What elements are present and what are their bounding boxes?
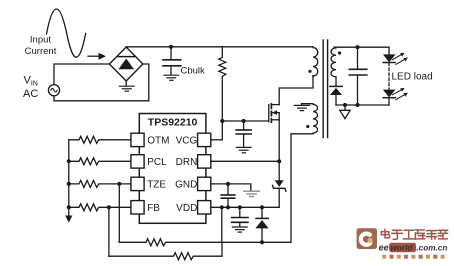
node VDD b — [226, 205, 230, 209]
svg-text:Input: Input — [30, 35, 51, 46]
wire GND pin network — [211, 184, 251, 191]
diode D2 output rectifier — [330, 86, 342, 105]
ground at aux winding top — [294, 104, 309, 111]
node VDD a — [220, 205, 224, 209]
transformer T1 secondary winding — [331, 48, 336, 86]
svg-text:TZE: TZE — [147, 179, 166, 190]
bridge rectifier D1 — [109, 47, 142, 81]
svg-text:TPS92210: TPS92210 — [148, 117, 198, 129]
wire FB tap down — [108, 207, 110, 256]
node output cap bottom — [355, 103, 359, 107]
wire drain to primary — [279, 76, 313, 105]
node VDD d — [260, 205, 264, 209]
svg-text:world: world — [390, 242, 413, 252]
resistor R5 (startup, vertical) — [219, 47, 226, 140]
svg-text:Current: Current — [25, 46, 57, 57]
transformer T1 aux winding — [291, 104, 318, 243]
node bus row4 — [67, 205, 71, 209]
wire VDD down to feedback line — [221, 207, 223, 242]
capacitor Cbulk — [163, 47, 181, 75]
input current label — [25, 35, 57, 58]
node D3 bottom — [260, 240, 264, 244]
pin labels left — [147, 135, 169, 213]
node DRN junction — [277, 159, 281, 163]
secondary top rail — [334, 46, 389, 48]
LED1 arrows — [393, 53, 408, 65]
IC U1 TPS92210 body — [139, 114, 206, 224]
svg-text:LED load: LED load — [392, 72, 433, 83]
node FB tap — [107, 205, 111, 209]
node GND cap junction — [226, 182, 230, 186]
pin VDD — [198, 201, 211, 214]
node VDD c — [238, 205, 242, 209]
logo eeworld text — [389, 243, 416, 252]
capacitor C4 (GND to VDD) — [221, 184, 235, 207]
svg-text:Cbulk: Cbulk — [181, 66, 206, 77]
wire gate line — [222, 120, 268, 122]
svg-text:FB: FB — [147, 203, 160, 214]
node VCG junction — [220, 119, 224, 123]
pin labels right — [175, 135, 197, 213]
node secondary polarity dot — [338, 51, 341, 54]
ground output (open triangle) — [340, 105, 350, 119]
top rail wire — [126, 46, 313, 48]
logo square — [357, 228, 377, 249]
wire bridge bottom to ground — [125, 81, 127, 86]
pin OTM — [131, 133, 144, 146]
wire VDD rail — [211, 206, 279, 208]
secondary bottom rail — [336, 104, 389, 106]
svg-text:PCL: PCL — [147, 157, 167, 168]
resistor R7 (FB feedback) — [109, 242, 222, 259]
VIN AC label — [23, 75, 38, 101]
wire VCG pin to node — [211, 139, 223, 141]
svg-text:VCG: VCG — [176, 135, 198, 146]
pin GND — [198, 177, 211, 190]
wire source down — [278, 113, 280, 180]
pin DRN — [198, 155, 211, 168]
ground GND pin (gray) — [244, 191, 260, 196]
diode D3 (VDD supply) — [255, 207, 268, 242]
node primary polarity dot — [308, 70, 311, 73]
ground below Cbulk — [164, 75, 179, 80]
svg-text:GND: GND — [175, 179, 197, 190]
node bus row2 — [67, 159, 71, 163]
capacitor C5 (VDD) — [232, 207, 248, 226]
ground below bridge — [119, 86, 134, 91]
AC source V1 — [48, 85, 59, 96]
ground below C2 — [236, 147, 251, 152]
bus arrow — [65, 216, 72, 223]
watermark logo eeworld — [357, 228, 448, 259]
pin FB — [131, 201, 144, 214]
left bias bus — [68, 140, 70, 216]
node output cap top — [355, 45, 359, 49]
input current arrow — [88, 53, 106, 60]
ground below C5 — [232, 227, 247, 232]
svg-text:ee: ee — [379, 243, 389, 253]
pin TZE — [131, 177, 144, 190]
pin PCL — [131, 155, 144, 168]
wire TZE tap down — [118, 184, 120, 242]
LED load string — [383, 47, 396, 105]
logo chinese title — [381, 229, 447, 239]
resistor R6 (TZE feedback) — [119, 239, 291, 246]
resistor R1 (OTM) — [69, 136, 131, 143]
svg-text:.com.cn: .com.cn — [416, 244, 447, 253]
resistor R3 (TZE) — [69, 180, 131, 187]
svg-text:AC: AC — [23, 88, 38, 100]
svg-text:DRN: DRN — [176, 157, 198, 168]
transformer core — [323, 40, 327, 138]
node bus row3 — [67, 182, 71, 186]
node aux polarity dot — [306, 125, 309, 128]
node Cbulk junction — [169, 45, 173, 49]
LED2 arrows — [393, 88, 408, 100]
wire DRN to zener node — [211, 160, 279, 162]
node output ground junction — [343, 103, 347, 107]
resistor R2 (PCL) — [69, 158, 131, 165]
transistor Q1 MOSFET — [269, 104, 279, 122]
svg-text:VDD: VDD — [176, 203, 197, 214]
svg-text:OTM: OTM — [147, 135, 169, 146]
wire AC top to bridge left — [54, 64, 109, 85]
wire AC bottom to bridge right — [54, 64, 149, 101]
logo slogan — [382, 255, 444, 259]
input current sine waveform — [47, 9, 86, 57]
capacitor C3 output — [349, 47, 367, 105]
transformer T1 primary winding — [313, 47, 318, 76]
pin VCG — [198, 133, 211, 146]
capacitor C2 (VCG) — [236, 121, 251, 147]
zener diode D4 — [273, 180, 286, 207]
resistor R4 (FB) — [69, 204, 131, 211]
node TZE tap — [117, 182, 121, 186]
node gate cap junction — [242, 119, 246, 123]
